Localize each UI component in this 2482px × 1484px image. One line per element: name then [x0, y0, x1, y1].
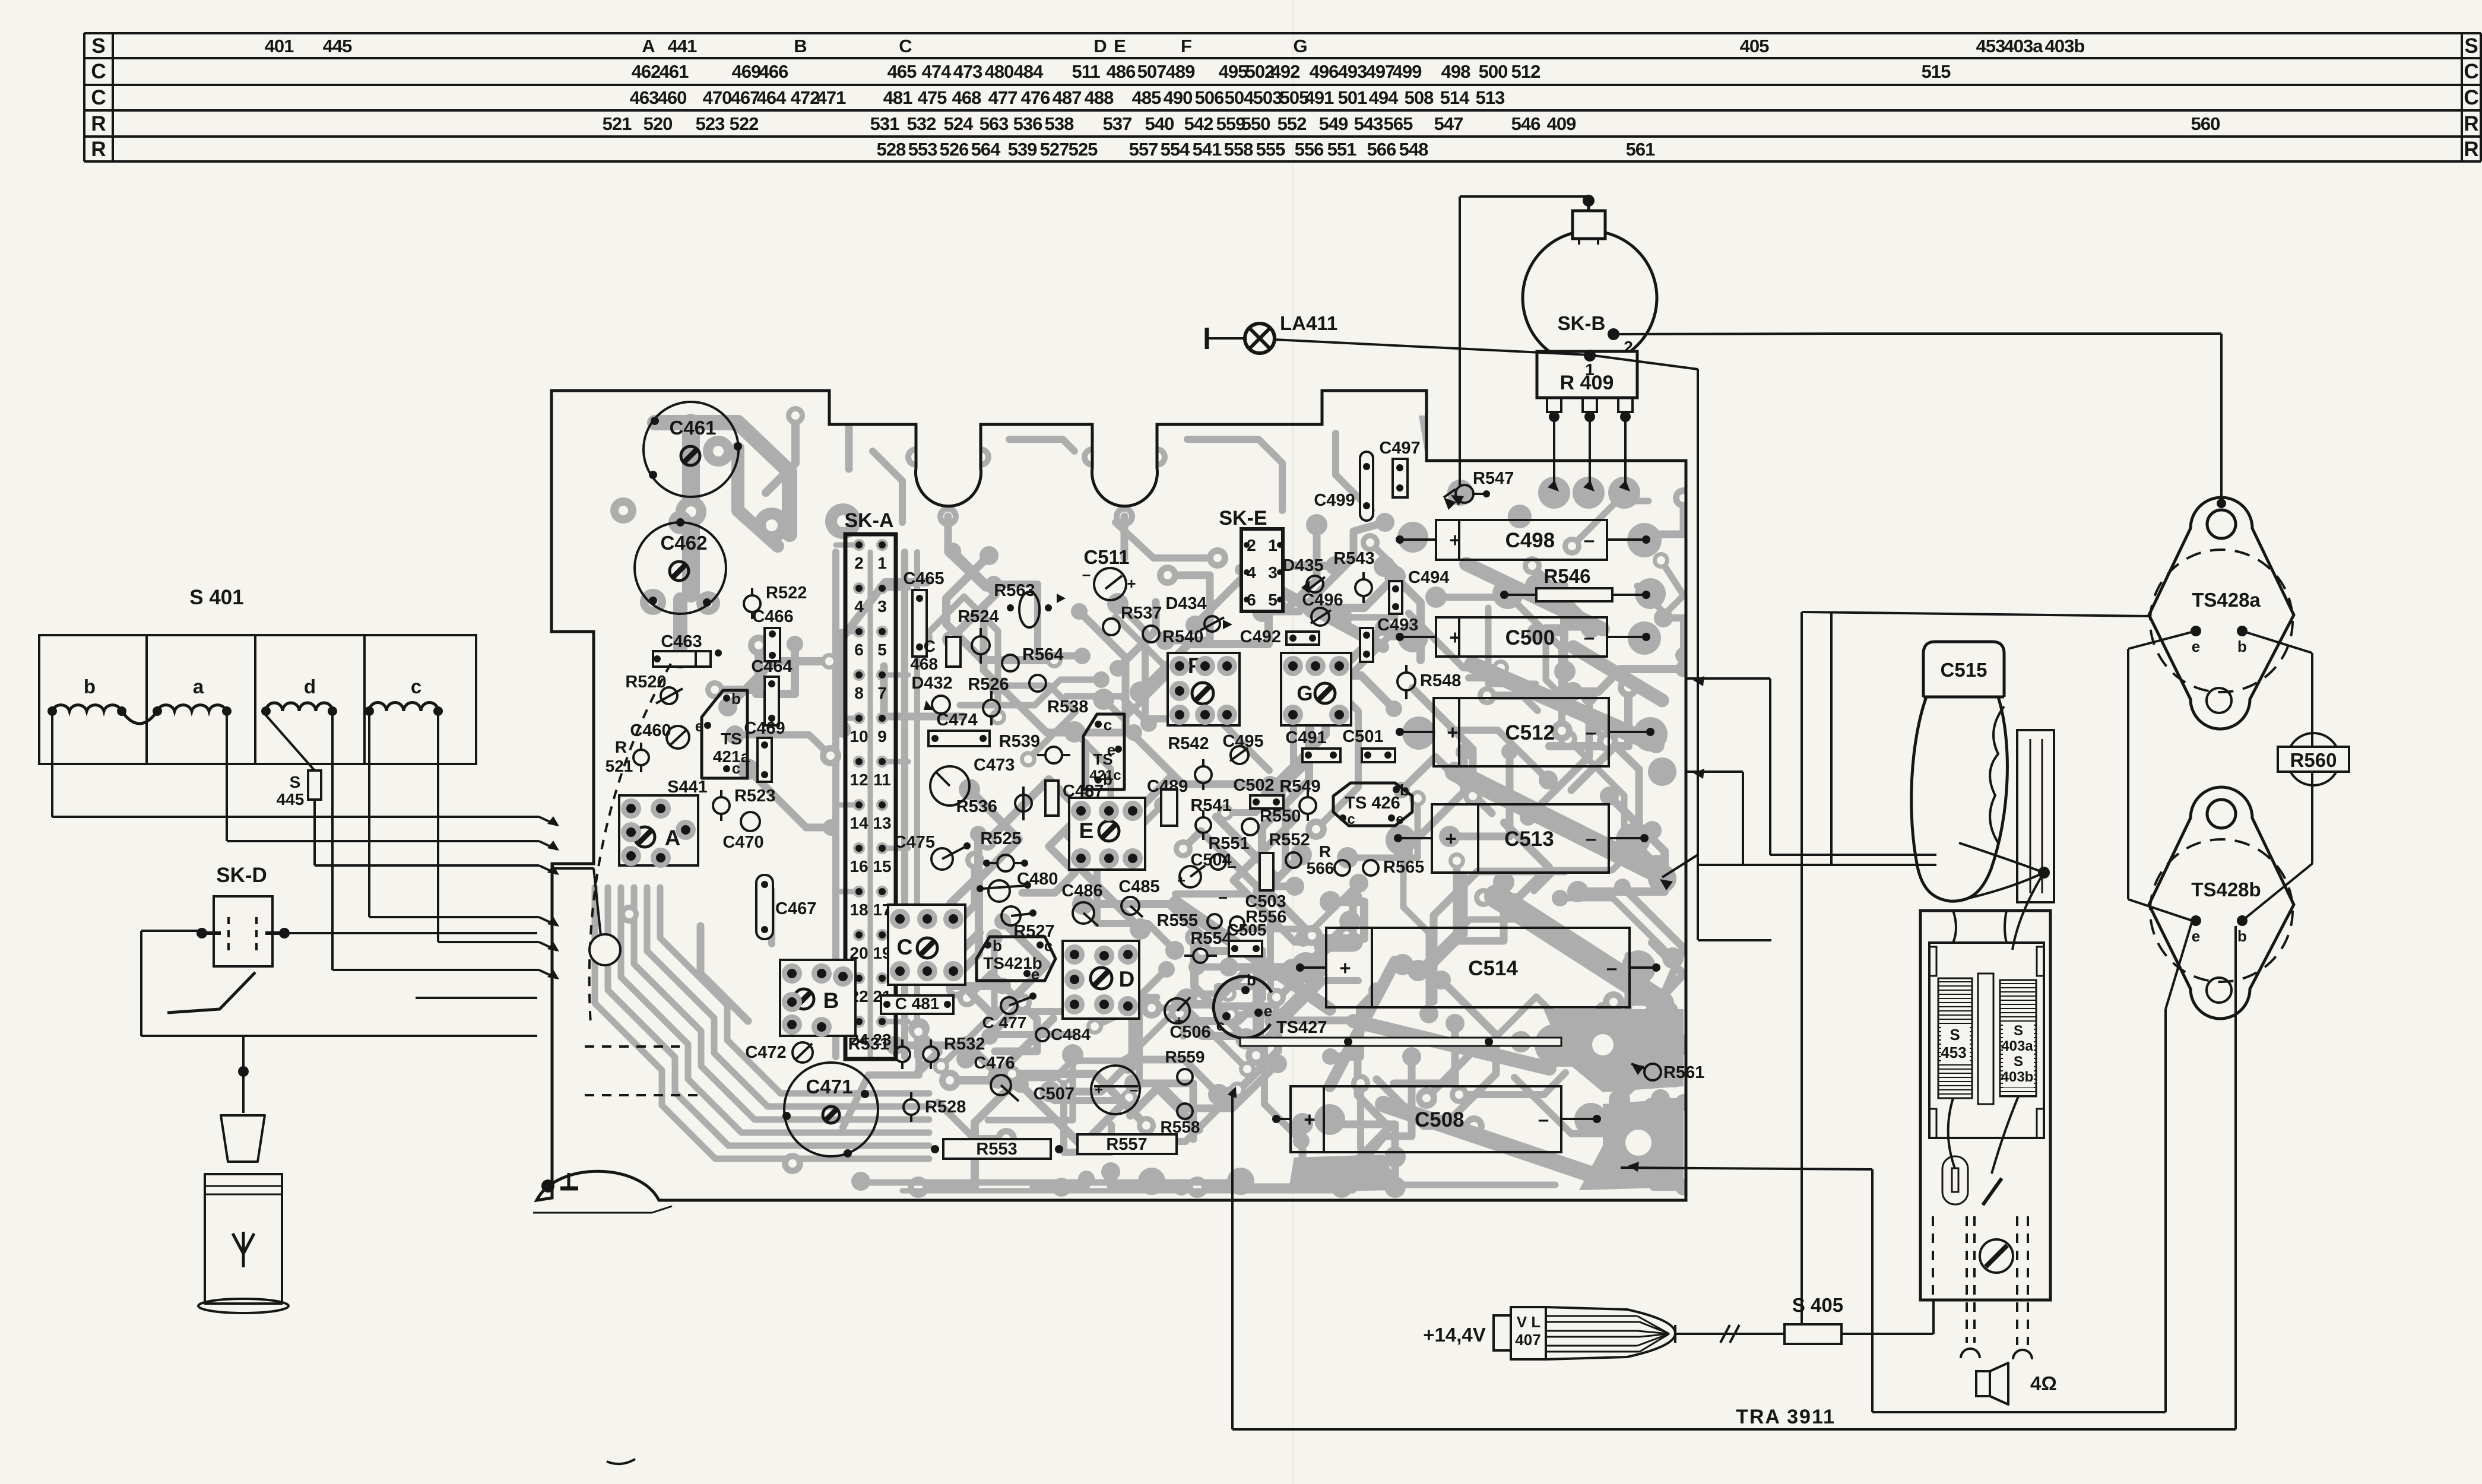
svg-text:C499: C499 [1314, 491, 1355, 510]
svg-text:S: S [290, 773, 301, 791]
svg-text:R551: R551 [1208, 834, 1249, 853]
svg-text:441: 441 [668, 36, 697, 56]
svg-text:+: + [1339, 957, 1351, 979]
svg-text:D: D [1093, 36, 1107, 56]
svg-text:+: + [1447, 721, 1458, 743]
svg-text:565: 565 [1384, 113, 1413, 134]
svg-text:546: 546 [1511, 113, 1540, 134]
svg-text:550: 550 [1241, 113, 1270, 134]
svg-text:C461: C461 [670, 417, 717, 439]
svg-text:C505: C505 [1227, 921, 1267, 939]
svg-text:475: 475 [918, 87, 947, 108]
svg-text:e: e [2192, 638, 2200, 655]
svg-text:C472: C472 [745, 1043, 786, 1062]
svg-text:C471: C471 [806, 1076, 853, 1098]
svg-text:+: + [1127, 575, 1136, 592]
svg-text:409: 409 [1547, 113, 1576, 134]
svg-text:486: 486 [1107, 61, 1136, 82]
svg-text:C469: C469 [744, 719, 785, 738]
svg-text:–: – [1227, 857, 1237, 875]
svg-text:C460: C460 [630, 721, 671, 740]
svg-text:9: 9 [877, 727, 887, 746]
svg-text:543: 543 [1354, 113, 1383, 134]
svg-text:10: 10 [849, 727, 868, 746]
svg-text:471: 471 [817, 87, 846, 108]
svg-text:R541: R541 [1190, 796, 1231, 815]
svg-text:R564: R564 [1022, 645, 1063, 664]
svg-text:C: C [899, 36, 912, 56]
svg-text:R546: R546 [1544, 565, 1591, 587]
svg-text:R: R [91, 112, 106, 135]
svg-text:492: 492 [1271, 61, 1300, 82]
svg-text:566: 566 [1367, 139, 1396, 160]
svg-text:548: 548 [1399, 139, 1428, 160]
svg-text:R: R [91, 138, 106, 161]
svg-text:R557: R557 [1106, 1135, 1147, 1154]
svg-text:D434: D434 [1165, 594, 1206, 613]
svg-text:527: 527 [1040, 139, 1069, 160]
svg-text:R543: R543 [1333, 549, 1374, 568]
svg-text:5: 5 [1268, 591, 1278, 609]
svg-text:506: 506 [1195, 87, 1224, 108]
svg-text:R539: R539 [999, 732, 1040, 751]
svg-text:508: 508 [1405, 87, 1434, 108]
svg-text:520: 520 [644, 113, 673, 134]
svg-text:G: G [1297, 682, 1313, 705]
svg-text:461: 461 [660, 61, 689, 82]
svg-text:C507: C507 [1034, 1085, 1074, 1104]
svg-text:462: 462 [632, 61, 661, 82]
svg-text:V L: V L [1517, 1313, 1541, 1331]
svg-text:481: 481 [883, 87, 912, 108]
svg-text:SK-A: SK-A [844, 509, 893, 532]
svg-text:487: 487 [1053, 87, 1082, 108]
svg-text:R560: R560 [2290, 749, 2337, 771]
svg-text:403a: 403a [2004, 36, 2044, 56]
svg-text:C 481: C 481 [895, 994, 940, 1013]
svg-text:e: e [1264, 1002, 1272, 1020]
svg-text:507: 507 [1137, 61, 1166, 82]
svg-text:b: b [2237, 927, 2247, 945]
svg-text:403a: 403a [2001, 1038, 2033, 1054]
svg-text:536: 536 [1013, 113, 1042, 134]
svg-text:C485: C485 [1118, 877, 1159, 896]
svg-text:460: 460 [658, 87, 687, 108]
svg-text:C513: C513 [1504, 827, 1554, 851]
svg-text:513: 513 [1476, 87, 1505, 108]
svg-text:494: 494 [1369, 87, 1399, 108]
svg-text:C498: C498 [1505, 529, 1555, 552]
svg-text:6: 6 [854, 640, 864, 659]
svg-text:+: + [1095, 1082, 1103, 1098]
svg-text:–: – [1538, 1108, 1549, 1130]
svg-text:S: S [2014, 1054, 2023, 1070]
svg-text:b: b [993, 937, 1002, 955]
svg-text:C515: C515 [1941, 659, 1987, 681]
svg-text:TS428a: TS428a [2192, 589, 2261, 611]
svg-text:+: + [1177, 873, 1185, 889]
svg-text:490: 490 [1164, 87, 1193, 108]
svg-text:18: 18 [849, 900, 868, 919]
svg-text:489: 489 [1166, 61, 1195, 82]
svg-text:R537: R537 [1121, 604, 1162, 623]
svg-text:C: C [91, 86, 106, 109]
svg-text:488: 488 [1085, 87, 1114, 108]
svg-text:SK-D: SK-D [216, 864, 267, 887]
svg-text:R558: R558 [1161, 1118, 1200, 1136]
svg-text:403b: 403b [2045, 36, 2085, 56]
svg-text:C463: C463 [661, 632, 702, 651]
svg-text:e: e [2192, 927, 2200, 945]
svg-text:480: 480 [985, 61, 1014, 82]
svg-text:551: 551 [1327, 139, 1356, 160]
svg-text:–: – [1130, 1082, 1137, 1098]
svg-text:470: 470 [703, 87, 732, 108]
svg-text:532: 532 [907, 113, 936, 134]
svg-text:C464: C464 [751, 657, 792, 676]
svg-text:407: 407 [1515, 1331, 1540, 1349]
svg-text:453: 453 [1976, 36, 2005, 56]
svg-text:c: c [1216, 1016, 1225, 1034]
svg-text:b: b [731, 690, 741, 708]
svg-text:R554: R554 [1190, 929, 1231, 948]
svg-text:TRA 3911: TRA 3911 [1736, 1406, 1836, 1428]
svg-text:557: 557 [1129, 139, 1158, 160]
svg-text:–: – [1584, 529, 1595, 551]
svg-text:d: d [304, 676, 316, 697]
svg-text:453: 453 [1941, 1044, 1966, 1061]
svg-text:R531: R531 [848, 1035, 889, 1054]
svg-text:R524: R524 [958, 607, 998, 626]
svg-text:b: b [84, 676, 96, 697]
svg-text:R: R [615, 738, 627, 756]
svg-text:2: 2 [854, 554, 864, 572]
svg-text:b: b [1247, 971, 1256, 989]
svg-text:555: 555 [1256, 139, 1285, 160]
svg-text:469: 469 [732, 61, 761, 82]
svg-text:503: 503 [1253, 87, 1282, 108]
svg-text:531: 531 [870, 113, 899, 134]
svg-text:R: R [2464, 112, 2478, 135]
svg-text:541: 541 [1193, 139, 1222, 160]
svg-text:512: 512 [1511, 61, 1540, 82]
svg-text:+14,4V: +14,4V [1423, 1324, 1486, 1346]
svg-text:504: 504 [1225, 87, 1254, 108]
svg-text:R565: R565 [1383, 858, 1424, 877]
svg-text:C493: C493 [1377, 616, 1418, 635]
svg-text:c: c [411, 676, 421, 697]
svg-text:–: – [1606, 957, 1617, 979]
svg-text:3: 3 [877, 597, 887, 616]
svg-text:558: 558 [1224, 139, 1253, 160]
svg-text:445: 445 [323, 36, 352, 56]
svg-text:468: 468 [910, 655, 938, 673]
svg-text:502: 502 [1245, 61, 1275, 82]
svg-text:C475: C475 [894, 833, 935, 852]
svg-text:554: 554 [1161, 139, 1190, 160]
svg-text:549: 549 [1319, 113, 1348, 134]
svg-text:501: 501 [1338, 87, 1367, 108]
svg-text:+: + [1449, 529, 1460, 551]
svg-text:C: C [897, 935, 913, 959]
svg-text:E: E [1079, 819, 1094, 843]
svg-text:5: 5 [877, 640, 887, 659]
svg-text:R555: R555 [1157, 911, 1198, 930]
svg-text:C 477: C 477 [982, 1013, 1027, 1032]
svg-text:R: R [2464, 138, 2478, 161]
svg-text:c: c [1104, 716, 1112, 734]
svg-text:S: S [1950, 1026, 1960, 1044]
svg-text:1: 1 [1585, 360, 1595, 379]
svg-text:R559: R559 [1165, 1048, 1205, 1066]
svg-text:564: 564 [971, 139, 1001, 160]
svg-text:C: C [2464, 60, 2478, 83]
svg-text:563: 563 [980, 113, 1009, 134]
svg-text:514: 514 [1440, 87, 1470, 108]
svg-text:477: 477 [988, 87, 1017, 108]
svg-text:C470: C470 [722, 833, 763, 852]
svg-text:13: 13 [873, 814, 891, 832]
svg-text:485: 485 [1132, 87, 1161, 108]
svg-text:498: 498 [1441, 61, 1470, 82]
svg-text:468: 468 [952, 87, 981, 108]
svg-text:C: C [2464, 86, 2478, 109]
svg-text:D: D [1119, 967, 1135, 991]
svg-text:4Ω: 4Ω [2030, 1372, 2057, 1394]
svg-text:542: 542 [1184, 113, 1213, 134]
svg-text:C500: C500 [1505, 626, 1555, 649]
svg-text:R522: R522 [766, 584, 807, 603]
svg-text:R525: R525 [980, 829, 1021, 848]
svg-text:521: 521 [603, 113, 632, 134]
svg-text:SK-B: SK-B [1558, 312, 1606, 334]
svg-text:R540: R540 [1162, 627, 1203, 646]
svg-text:11: 11 [873, 770, 891, 789]
svg-text:+: + [1445, 827, 1456, 849]
svg-text:521: 521 [606, 757, 633, 775]
svg-text:463: 463 [630, 87, 659, 108]
svg-text:e: e [1396, 811, 1403, 827]
svg-text:C486: C486 [1061, 881, 1102, 900]
svg-text:445: 445 [277, 790, 305, 808]
svg-text:R: R [1319, 842, 1331, 861]
svg-text:+: + [1304, 1108, 1315, 1130]
svg-text:S441: S441 [667, 778, 708, 797]
svg-text:C494: C494 [1408, 568, 1449, 587]
svg-text:552: 552 [1278, 113, 1307, 134]
svg-text:540: 540 [1145, 113, 1174, 134]
svg-text:b: b [2237, 638, 2247, 655]
svg-text:467: 467 [731, 87, 760, 108]
svg-text:C497: C497 [1379, 439, 1420, 458]
svg-text:D432: D432 [911, 674, 952, 693]
svg-text:–: – [1586, 827, 1596, 849]
svg-text:1: 1 [1268, 536, 1278, 554]
svg-text:C: C [924, 637, 936, 655]
svg-text:1: 1 [877, 554, 887, 572]
svg-text:C503: C503 [1245, 892, 1286, 911]
svg-text:TS: TS [1093, 750, 1112, 768]
svg-text:12: 12 [849, 770, 868, 789]
svg-text:464: 464 [757, 87, 787, 108]
svg-text:E: E [1114, 36, 1126, 56]
svg-text:401: 401 [265, 36, 294, 56]
svg-text:4: 4 [854, 597, 864, 616]
svg-text:C467: C467 [775, 899, 816, 918]
svg-text:556: 556 [1295, 139, 1324, 160]
svg-text:C501: C501 [1342, 727, 1383, 746]
svg-text:473: 473 [953, 61, 982, 82]
svg-text:–: – [1218, 887, 1228, 906]
svg-text:16: 16 [849, 857, 868, 876]
svg-text:C508: C508 [1415, 1108, 1465, 1131]
svg-text:C492: C492 [1240, 627, 1281, 646]
svg-text:421c: 421c [1089, 768, 1121, 784]
svg-text:405: 405 [1740, 36, 1769, 56]
svg-text:500: 500 [1479, 61, 1508, 82]
svg-text:528: 528 [877, 139, 906, 160]
svg-text:14: 14 [849, 814, 868, 832]
svg-text:466: 466 [759, 61, 788, 82]
svg-text:491: 491 [1305, 87, 1334, 108]
svg-text:522: 522 [730, 113, 759, 134]
svg-text:TS: TS [721, 730, 742, 748]
svg-text:R561: R561 [1663, 1063, 1704, 1082]
svg-text:465: 465 [887, 61, 917, 82]
svg-text:553: 553 [908, 139, 937, 160]
svg-text:R552: R552 [1269, 830, 1310, 849]
svg-text:C484: C484 [1051, 1025, 1091, 1044]
svg-text:R542: R542 [1168, 734, 1209, 753]
svg-text:R547: R547 [1473, 469, 1514, 488]
svg-text:LA411: LA411 [1280, 312, 1337, 334]
svg-text:R563: R563 [994, 581, 1035, 600]
svg-text:S: S [2014, 1023, 2023, 1039]
svg-text:421a: 421a [713, 747, 750, 766]
svg-text:B: B [823, 988, 839, 1013]
svg-text:D435: D435 [1282, 556, 1323, 575]
svg-text:R550: R550 [1260, 807, 1301, 826]
svg-text:TS421b: TS421b [983, 954, 1042, 972]
svg-text:484: 484 [1014, 61, 1044, 82]
svg-text:566: 566 [1307, 859, 1334, 877]
svg-text:7: 7 [877, 684, 887, 702]
svg-text:TS427: TS427 [1276, 1018, 1327, 1037]
svg-text:C495: C495 [1222, 732, 1263, 751]
svg-text:8: 8 [854, 684, 864, 702]
svg-text:TS428b: TS428b [2191, 879, 2261, 900]
svg-text:–: – [1584, 626, 1595, 648]
svg-text:B: B [794, 36, 806, 56]
svg-text:–: – [1586, 721, 1596, 743]
svg-text:497: 497 [1366, 61, 1395, 82]
svg-text:C474: C474 [936, 711, 977, 730]
svg-text:C502: C502 [1233, 776, 1274, 795]
svg-text:R549: R549 [1279, 777, 1320, 796]
svg-text:C476: C476 [974, 1054, 1015, 1073]
svg-text:C491: C491 [1285, 728, 1326, 747]
svg-text:560: 560 [2191, 113, 2220, 134]
svg-text:S 401: S 401 [189, 586, 243, 609]
svg-text:539: 539 [1008, 139, 1037, 160]
svg-text:R526: R526 [968, 675, 1009, 694]
svg-text:a: a [193, 676, 204, 697]
svg-text:537: 537 [1103, 113, 1132, 134]
svg-text:R523: R523 [734, 787, 775, 806]
svg-text:C496: C496 [1302, 591, 1343, 610]
svg-text:SK-E: SK-E [1219, 507, 1267, 529]
svg-text:495: 495 [1219, 61, 1248, 82]
svg-text:C: C [91, 60, 106, 83]
svg-text:547: 547 [1434, 113, 1463, 134]
svg-text:R553: R553 [976, 1140, 1017, 1159]
svg-text:3: 3 [1268, 563, 1278, 582]
svg-text:b: b [1400, 781, 1409, 799]
svg-text:525: 525 [1069, 139, 1098, 160]
svg-text:474: 474 [922, 61, 952, 82]
svg-text:511: 511 [1072, 61, 1100, 82]
svg-text:C462: C462 [661, 532, 708, 554]
svg-text:C514: C514 [1468, 957, 1518, 980]
svg-text:15: 15 [873, 857, 891, 876]
svg-text:524: 524 [944, 113, 974, 134]
svg-text:C465: C465 [903, 569, 944, 588]
svg-text:F: F [1181, 36, 1191, 56]
svg-text:+: + [1449, 626, 1460, 648]
svg-text:S: S [91, 34, 105, 58]
svg-text:A: A [642, 36, 655, 56]
svg-text:R548: R548 [1420, 671, 1461, 690]
svg-text:538: 538 [1045, 113, 1074, 134]
svg-text:c: c [1347, 811, 1355, 827]
svg-text:493: 493 [1338, 61, 1367, 82]
svg-text:C473: C473 [974, 756, 1015, 775]
svg-text:G: G [1293, 36, 1307, 56]
svg-text:–: – [1082, 565, 1091, 583]
svg-text:403b: 403b [2001, 1069, 2034, 1085]
svg-text:515: 515 [1922, 61, 1951, 82]
svg-text:499: 499 [1393, 61, 1422, 82]
svg-text:R527: R527 [1013, 922, 1054, 941]
svg-text:S: S [2464, 34, 2478, 58]
svg-text:R528: R528 [925, 1098, 966, 1117]
svg-text:R538: R538 [1047, 697, 1088, 716]
svg-text:561: 561 [1626, 139, 1655, 160]
svg-text:476: 476 [1021, 87, 1050, 108]
svg-text:526: 526 [940, 139, 969, 160]
svg-text:C506: C506 [1169, 1023, 1210, 1042]
svg-text:472: 472 [791, 87, 820, 108]
svg-text:TS 426: TS 426 [1345, 794, 1400, 813]
svg-text:S 405: S 405 [1792, 1294, 1843, 1316]
svg-text:523: 523 [696, 113, 725, 134]
svg-text:2: 2 [1624, 338, 1633, 356]
svg-text:R532: R532 [944, 1035, 985, 1054]
svg-text:C512: C512 [1505, 721, 1555, 744]
svg-text:496: 496 [1310, 61, 1339, 82]
svg-text:e: e [695, 717, 703, 735]
